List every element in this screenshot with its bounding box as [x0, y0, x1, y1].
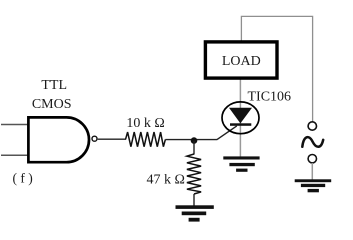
svg-text:47 k Ω: 47 k Ω: [146, 173, 184, 188]
wire LOAD bottom through SCR to ground: [239, 79, 241, 157]
nand gate U1 inverting bubble: [92, 136, 97, 141]
resistor R1 10k: [126, 132, 166, 147]
SCR U2 anode-cathode triangle: [229, 108, 252, 124]
wire input A to gate: [1, 124, 28, 126]
ground G2 below SCR: [223, 156, 259, 171]
svg-text:LOAD: LOAD: [222, 54, 261, 69]
svg-text:10 k Ω: 10 k Ω: [126, 116, 164, 131]
ground G1 below R2: [176, 205, 214, 221]
svg-text:TIC106: TIC106: [248, 89, 292, 104]
node A junction dot: [191, 137, 198, 144]
SCR U2 cathode bar: [230, 123, 251, 126]
resistor R2 47k: [187, 154, 201, 194]
wire R2 to ground: [193, 194, 195, 206]
wire input B to gate: [1, 154, 28, 156]
ground G3 below AC source: [295, 179, 332, 192]
nand gate U1 body: [28, 117, 89, 162]
AC source sine symbol: [302, 137, 323, 147]
svg-text:TTL: TTL: [41, 78, 67, 93]
wire node A down to R2: [193, 141, 195, 155]
wire AC bottom terminal to ground: [311, 163, 313, 180]
svg-text:( f ): ( f ): [13, 171, 33, 186]
AC source terminal circle top: [308, 122, 316, 130]
load box: [205, 42, 277, 78]
wire LOAD top up-over-down to AC source: [241, 16, 312, 121]
wire gate lead diagonal to SCR cathode: [217, 126, 237, 140]
wire gate output to R1: [98, 138, 126, 140]
wire R1 to node A: [165, 139, 217, 141]
SCR U2 circle: [222, 102, 259, 134]
AC source terminal circle bottom: [308, 155, 316, 163]
svg-text:CMOS: CMOS: [32, 97, 72, 112]
